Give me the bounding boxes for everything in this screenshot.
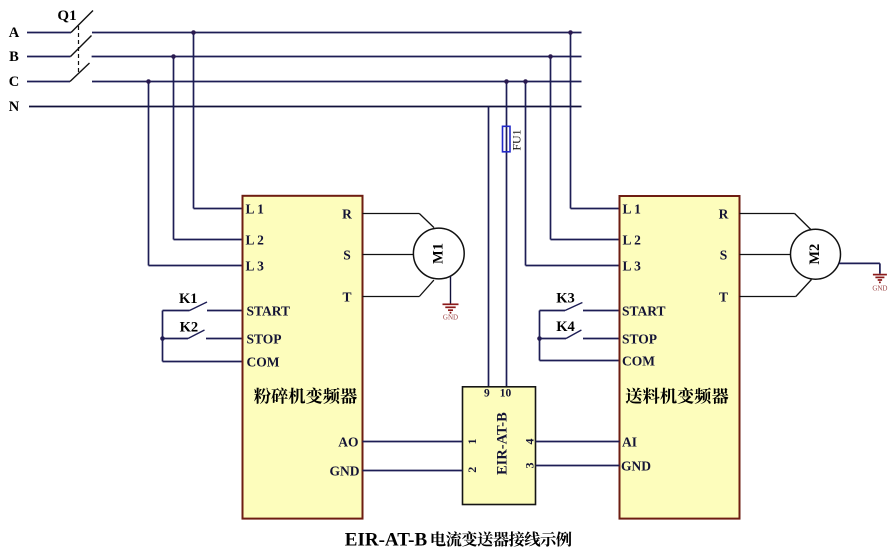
svg-text:K4: K4 [556, 319, 575, 335]
svg-text:2: 2 [465, 467, 479, 473]
svg-text:L 2: L 2 [623, 232, 642, 247]
svg-text:START: START [622, 303, 666, 318]
svg-text:R: R [342, 206, 352, 221]
svg-text:M1: M1 [431, 243, 447, 264]
svg-text:GND: GND [330, 463, 360, 478]
svg-text:L 3: L 3 [623, 258, 642, 273]
svg-text:GND: GND [872, 285, 887, 293]
svg-text:EIR-AT-B: EIR-AT-B [345, 529, 428, 550]
svg-text:A: A [9, 25, 20, 41]
svg-text:S: S [343, 247, 351, 262]
svg-text:K1: K1 [179, 291, 198, 307]
svg-text:S: S [720, 247, 728, 262]
svg-text:Q1: Q1 [57, 8, 76, 24]
svg-text:EIR-AT-B: EIR-AT-B [495, 412, 511, 475]
svg-text:GND: GND [621, 458, 651, 473]
svg-text:L 1: L 1 [246, 201, 265, 216]
svg-text:STOP: STOP [247, 331, 282, 346]
svg-text:K2: K2 [180, 319, 199, 335]
svg-text:T: T [342, 289, 351, 304]
svg-text:4: 4 [522, 439, 536, 445]
svg-text:COM: COM [622, 353, 655, 368]
svg-text:T: T [719, 289, 728, 304]
svg-text:START: START [247, 303, 291, 318]
svg-text:B: B [9, 49, 19, 65]
svg-text:GND: GND [443, 314, 458, 322]
svg-text:9: 9 [484, 388, 490, 400]
svg-text:FU1: FU1 [510, 129, 524, 150]
svg-text:N: N [9, 99, 20, 115]
svg-text:STOP: STOP [622, 331, 657, 346]
svg-text:L 1: L 1 [623, 201, 642, 216]
svg-text:K3: K3 [556, 291, 575, 307]
svg-text:1: 1 [465, 439, 479, 445]
svg-text:L 2: L 2 [246, 232, 265, 247]
svg-text:L 3: L 3 [246, 258, 265, 273]
svg-text:AI: AI [622, 434, 637, 449]
svg-text:M2: M2 [807, 244, 823, 265]
svg-text:COM: COM [247, 354, 280, 369]
svg-text:AO: AO [338, 434, 358, 449]
svg-text:C: C [9, 74, 19, 90]
svg-text:R: R [719, 206, 729, 221]
svg-text:10: 10 [500, 388, 512, 400]
svg-text:3: 3 [522, 463, 536, 469]
